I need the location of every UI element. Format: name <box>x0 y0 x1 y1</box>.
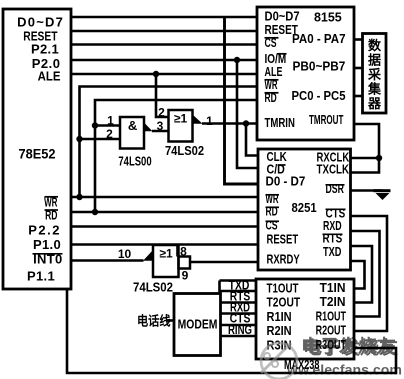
svg-text:D0~D7: D0~D7 <box>17 15 64 30</box>
svg-text:TXCLK: TXCLK <box>317 163 350 177</box>
wire RD to 8251 RD <box>71 211 258 214</box>
overline RD mcu <box>45 209 59 211</box>
svg-text:采: 采 <box>367 67 382 82</box>
overline 8155 WR <box>265 79 279 81</box>
svg-text:T1IN: T1IN <box>320 281 346 296</box>
wire 8251 DSR to ground <box>351 189 383 192</box>
wire INT0 to 74LS02 B output <box>71 259 144 262</box>
svg-text:9: 9 <box>182 269 189 283</box>
wire square pin 9 to 8251 RXRDY <box>190 261 258 264</box>
watermark stamp ring <box>261 343 297 379</box>
wire ladder rung RTS RXD <box>220 301 257 304</box>
wire 74LS02 A output to 8155 TMRIN <box>202 122 257 125</box>
wire riser TMRIN tap to 8251 CLK <box>246 124 258 156</box>
wire ladder rung CTS RING <box>220 324 257 327</box>
svg-text:T1OUT: T1OUT <box>267 282 299 296</box>
svg-text:R2IN: R2IN <box>267 323 292 338</box>
svg-text:RESET: RESET <box>267 233 299 247</box>
data collector box <box>363 34 387 114</box>
svg-text:10: 10 <box>118 247 132 261</box>
wire MAX238 R3OUT to P1.1 bottom loop <box>67 289 396 373</box>
svg-text:P2.1: P2.1 <box>31 42 59 57</box>
svg-text:RING: RING <box>228 324 252 338</box>
svg-text:2: 2 <box>106 127 113 141</box>
svg-text:电话线: 电话线 <box>137 313 170 329</box>
watermark stamp slash <box>261 343 291 373</box>
wire ALE tap to 74LS02 A input 2 <box>156 74 169 117</box>
wire ladder rung RXD CTS <box>220 312 257 315</box>
svg-text:器: 器 <box>367 96 382 111</box>
wire 8251 RXD to MAX238 R1OUT <box>351 231 380 317</box>
svg-text:1: 1 <box>206 114 213 128</box>
overline 8155 IO M <box>277 53 287 55</box>
svg-text:ww.elecfans.com: ww.elecfans.com <box>286 362 402 378</box>
svg-text:P2.2: P2.2 <box>28 223 61 238</box>
svg-text:R1IN: R1IN <box>267 309 292 324</box>
svg-text:PC0 - PC5: PC0 - PC5 <box>292 88 346 103</box>
overline 8251 CTS <box>326 208 346 210</box>
svg-text:电子发烧友: 电子发烧友 <box>301 336 396 357</box>
svg-text:R1OUT: R1OUT <box>316 310 347 324</box>
svg-text:TMRIN: TMRIN <box>265 117 295 131</box>
watermark stamp dot b <box>272 361 278 367</box>
svg-text:8: 8 <box>180 245 187 259</box>
MODEM U6 box <box>174 294 221 356</box>
wire ladder rung RING bottom <box>220 335 257 338</box>
overline 8251 RD <box>266 206 280 208</box>
svg-text:P1.0: P1.0 <box>33 237 61 252</box>
wire P1.0 to 8251 RESET <box>71 243 258 246</box>
overline 8251 RTS <box>323 233 343 235</box>
junction RD riser <box>92 209 98 215</box>
wire ladder rung TXD top <box>220 279 257 282</box>
overline 8251 WR <box>266 194 280 196</box>
wire riser D0-D7 bus to 8251 <box>225 17 259 184</box>
wire 8155 PC to collector <box>354 95 363 98</box>
wire P2.0 to 8155 IO/M <box>71 59 257 62</box>
junction TMROUT RXCLK tap <box>376 155 382 161</box>
svg-text:3: 3 <box>157 119 164 133</box>
svg-text:集: 集 <box>367 82 382 97</box>
svg-text:MODEM: MODEM <box>178 317 218 331</box>
MCU U1 78E52 box <box>3 9 71 289</box>
or gate 74LS02 A box <box>169 110 193 142</box>
svg-text:PB0~PB7: PB0~PB7 <box>293 59 346 74</box>
svg-text:74LS02: 74LS02 <box>165 143 204 158</box>
svg-text:TXD: TXD <box>323 246 341 260</box>
svg-text:数: 数 <box>368 38 382 53</box>
ground triangle <box>376 193 390 200</box>
svg-text:78E52: 78E52 <box>18 146 55 161</box>
svg-text:WR: WR <box>44 196 58 210</box>
svg-text:8155: 8155 <box>314 9 342 24</box>
wedge 74LS00 output <box>144 123 153 132</box>
svg-text:RD: RD <box>45 209 57 223</box>
MAX238 U5 box <box>256 279 354 359</box>
svg-text:2: 2 <box>158 106 165 120</box>
wire 8155 PB to collector <box>354 67 363 70</box>
wire P2.1 to 8155 CS <box>71 43 257 46</box>
wire 74LS00 input 2 <box>80 138 121 141</box>
svg-text:≥1: ≥1 <box>159 247 173 261</box>
wire 74LS00 output to 74LS02 A input 3 <box>152 130 169 133</box>
wedge 74LS02 B output <box>143 250 153 261</box>
junction WR riser <box>76 194 82 200</box>
wire 8251 RTS to MAX238 T2IN <box>351 246 373 303</box>
overline 8251 C/D D <box>278 164 286 166</box>
svg-text:≥1: ≥1 <box>174 112 188 126</box>
svg-text:74LS00: 74LS00 <box>118 155 151 169</box>
wire WR riser to 8155 WR <box>80 87 258 198</box>
wire 8251 TXD to MAX238 T1IN <box>351 261 365 289</box>
8155 U2 box <box>257 7 354 140</box>
overline 8155 RD <box>265 92 279 94</box>
wire WR to 8251 WR <box>71 196 258 199</box>
junction TMRIN CLK tap <box>243 120 249 126</box>
wire 74LS00 input 1 <box>95 124 120 127</box>
junction 74LS00 pin2 tap <box>76 136 82 142</box>
svg-text:D0~D7: D0~D7 <box>265 9 300 24</box>
svg-text:P1.1: P1.1 <box>27 269 55 284</box>
svg-text:T2IN: T2IN <box>320 295 346 310</box>
wire riser P2.0 to 8251 C/D <box>237 60 258 168</box>
svg-text:据: 据 <box>368 53 381 68</box>
74LS02 B input square pins 8 9 <box>179 257 191 269</box>
wire phone line to MODEM <box>166 319 174 322</box>
8251 U3 box <box>258 149 351 270</box>
svg-text:74LS02: 74LS02 <box>133 280 173 295</box>
ground bar <box>374 189 391 192</box>
wire ALE to 8155 ALE <box>71 73 257 76</box>
svg-text:D0 - D7: D0 - D7 <box>266 174 306 189</box>
wire 8251 CTS to MAX238 R2OUT <box>351 216 388 331</box>
svg-text:RXRDY: RXRDY <box>267 253 301 267</box>
watermark stamp dot a <box>264 353 270 359</box>
svg-text:PA0 - PA7: PA0 - PA7 <box>292 31 346 46</box>
and gate 74LS00 box <box>120 117 144 149</box>
or gate 74LS02 B box <box>153 245 179 277</box>
junction 74LS00 pin1 tap <box>92 122 98 128</box>
watermark <box>261 336 402 379</box>
wire RESET to 8155 <box>71 30 257 33</box>
wire 8155 TMROUT to 8251 TXCLK <box>351 124 380 173</box>
wire ladder rung TXD RTS <box>220 290 257 293</box>
junction P2.0 tap <box>234 57 240 63</box>
overline INT0 <box>33 253 63 255</box>
svg-text:ALE: ALE <box>38 69 61 84</box>
overline 8155 CS <box>265 37 279 39</box>
svg-text:&: & <box>128 118 137 133</box>
svg-text:TMROUT: TMROUT <box>309 113 344 127</box>
wire 8155 PA to collector <box>354 38 363 41</box>
wedge 74LS02 A output <box>193 115 203 124</box>
svg-text:T2OUT: T2OUT <box>267 295 301 309</box>
wire MODEM edge extension <box>218 281 221 294</box>
wire P2.2 to 8251 CS <box>71 225 258 228</box>
junction ALE tap <box>153 71 159 77</box>
overline WR mcu <box>45 196 59 198</box>
wire P1.0 tap to square pin 8 <box>176 245 179 257</box>
svg-text:1: 1 <box>107 114 114 128</box>
overline 8251 DSR <box>326 184 345 186</box>
svg-text:8251: 8251 <box>292 200 317 215</box>
overline 8251 CS <box>266 220 280 222</box>
wire 8251 RXCLK <box>351 157 380 160</box>
wire RD riser to 8155 RD <box>95 100 257 212</box>
wire D0-D7 bus to 8155 <box>71 16 257 19</box>
